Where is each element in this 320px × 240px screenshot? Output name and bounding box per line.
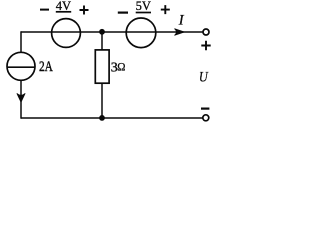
wire top horizontal (21, 31, 203, 33)
svg-text:U: U (199, 70, 209, 86)
wire resistor branch lower (101, 83, 103, 118)
current source direction arrow (17, 94, 25, 102)
terminal minus sign (201, 107, 209, 109)
svg-text:5V: 5V (136, 0, 152, 13)
wire bottom horizontal (21, 117, 203, 119)
polarity plus of 5V (161, 5, 170, 14)
wire resistor branch upper (101, 32, 103, 50)
polarity minus of 5V (118, 12, 128, 14)
polarity plus of 4V (80, 6, 89, 15)
polarity minus of 4V (40, 9, 49, 11)
resistor R rectangle (95, 50, 109, 83)
terminal plus sign (201, 41, 210, 50)
voltage source US2 5V circle (126, 18, 156, 48)
terminal top open circle (203, 29, 209, 35)
wire left vertical upper (20, 31, 22, 52)
current source IS bar (7, 66, 35, 68)
node junction dot bottom (99, 115, 105, 121)
svg-text:Ω: Ω (117, 60, 125, 74)
terminal bottom open circle (203, 115, 209, 121)
svg-text:2A: 2A (39, 59, 53, 75)
current source IS 2A circle (7, 52, 35, 80)
voltage source US1 4V circle (52, 19, 81, 48)
wire left vertical lower (20, 80, 22, 119)
current I arrow on top wire (175, 29, 185, 35)
node junction dot top (99, 29, 105, 35)
